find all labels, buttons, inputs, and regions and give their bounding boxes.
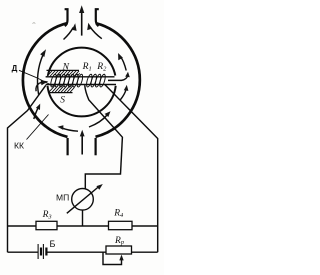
wire meter bottom to bridge rail	[82, 210, 84, 226]
battery Б short plate 2	[45, 248, 47, 256]
outlet pipe left wall	[65, 9, 68, 26]
svg-text:Б: Б	[50, 239, 56, 249]
annulus flow arrow lower-left	[34, 104, 40, 119]
outlet mouth arrow left	[64, 23, 77, 39]
svg-text:R4: R4	[113, 208, 124, 218]
inner chamber wall circle upper arc	[48, 48, 115, 76]
svg-text:КК: КК	[14, 140, 24, 150]
magnetic wind arrow into tube	[36, 80, 48, 91]
annulus flow arrow upper-right	[118, 53, 126, 71]
measuring tube top line	[46, 76, 115, 78]
resistor R4	[109, 221, 133, 229]
wire from node M to meter МП	[85, 85, 123, 189]
rheostat wiper wire	[103, 252, 122, 264]
annulus flow arrow upper-left	[37, 49, 46, 94]
battery Б long plate 1	[37, 244, 39, 259]
svg-text:МП: МП	[56, 192, 69, 202]
meter МП needle arrow	[67, 184, 103, 213]
wire from node L to left circuit edge	[8, 85, 46, 252]
svg-text:Д: Д	[12, 64, 18, 73]
noise speck	[33, 22, 36, 25]
bridge rail R3-R4	[8, 225, 158, 227]
inlet pipe right wall	[94, 138, 96, 155]
measuring tube bottom line	[46, 84, 116, 86]
rheostat Rp rectangle	[106, 246, 132, 254]
annulus flow arrow bottom-right-low	[89, 111, 111, 127]
svg-text:R2: R2	[96, 61, 107, 72]
winding R1 loops	[50, 74, 84, 88]
wire from node R to right circuit edge	[105, 85, 158, 252]
ring chamber outer wall left arc	[23, 23, 68, 137]
meter МП circle	[72, 189, 94, 211]
winding R2 loops	[85, 74, 106, 88]
inlet pipe left wall	[66, 138, 68, 155]
battery Б short plate 1	[40, 248, 42, 256]
label leader line Д	[19, 70, 53, 85]
outlet pipe right wall	[96, 9, 99, 26]
svg-text:R3: R3	[42, 210, 52, 220]
resistor R3	[36, 221, 57, 229]
svg-text:R1: R1	[82, 61, 92, 72]
annulus flow arrow bottom-left	[57, 125, 78, 131]
bottom supply rail	[8, 251, 158, 253]
ring chamber outer wall right arc	[96, 23, 140, 137]
outlet mouth arrow right	[87, 23, 102, 39]
inlet flow arrow (center bottom)	[80, 130, 85, 155]
svg-text:Rр: Rр	[114, 236, 124, 246]
outlet flow arrow (center top)	[79, 5, 84, 35]
magnet pole N (hatched)	[47, 70, 80, 76]
inner chamber wall circle lower arc	[48, 86, 116, 117]
battery Б long plate 2	[42, 244, 44, 259]
svg-text:S: S	[60, 96, 65, 106]
annulus flow arrow right-mid	[120, 85, 128, 100]
svg-text:N: N	[62, 62, 70, 73]
magnet pole S (hatched)	[49, 85, 74, 92]
tube exit flow arrow	[108, 72, 130, 81]
rheostat wiper arrow head	[119, 255, 123, 261]
label leader line КК	[27, 115, 49, 140]
